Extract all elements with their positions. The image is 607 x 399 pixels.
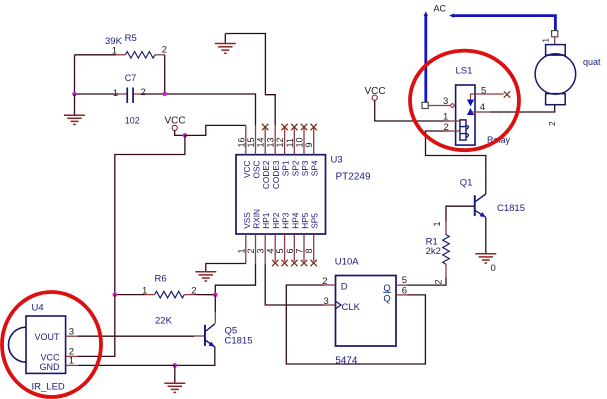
resistor R5: [105, 33, 167, 58]
svg-text:R5: R5: [125, 33, 137, 44]
svg-text:VCC: VCC: [242, 161, 252, 179]
svg-text:15: 15: [246, 137, 256, 147]
resistor R6: [115, 274, 197, 327]
svg-text:6: 6: [402, 286, 407, 297]
ellipse highlight around U4: [2, 292, 101, 397]
power VCC (left): [165, 116, 186, 136]
pin 6 Qbar: [396, 286, 408, 297]
wire R5 pin1 horizontal: [75, 54, 116, 56]
pin 4 HP2: [265, 212, 281, 266]
pin 2 RXIN: [246, 209, 262, 264]
svg-text:1: 1: [112, 45, 117, 56]
pin 2 VCC: [66, 347, 78, 358]
svg-text:12: 12: [275, 137, 285, 147]
svg-text:SP3: SP3: [300, 160, 310, 176]
svg-text:0: 0: [491, 263, 496, 274]
transistor Q1: [460, 177, 525, 217]
capacitor C7: [113, 73, 146, 125]
arrow AC horizontal tip: [449, 13, 454, 17]
IC U4 IR_LED receiver: [9, 302, 66, 392]
svg-text:HP1: HP1: [261, 212, 271, 229]
wire R6 pin2 to node: [196, 294, 215, 296]
relay pin 3: [443, 96, 455, 108]
pin 1 VSS: [236, 212, 252, 264]
pin 6 HP4: [285, 212, 301, 266]
relay LS1 body: [456, 66, 511, 146]
svg-text:C1815: C1815: [225, 335, 253, 346]
svg-text:1: 1: [236, 248, 246, 253]
svg-text:SP1: SP1: [281, 160, 291, 176]
svg-text:8: 8: [304, 248, 314, 253]
svg-text:Q1: Q1: [460, 177, 473, 188]
terminal square motor pin1: [552, 31, 558, 37]
relay pin 1 stub: [444, 120, 456, 122]
svg-text:IR_LED: IR_LED: [32, 381, 65, 392]
svg-text:CLK: CLK: [342, 302, 361, 313]
wire VCC to U3 pin16: [185, 125, 246, 135]
svg-text:2: 2: [434, 279, 444, 284]
wire R5 pin2 down to C7 node: [164, 55, 166, 94]
pin 10 SP3: [295, 124, 311, 176]
wire AC thick blue horizontal to motor: [454, 16, 556, 31]
svg-text:HP3: HP3: [281, 212, 291, 229]
svg-text:CODE2: CODE2: [261, 160, 271, 189]
pin 3 HP1: [256, 212, 272, 264]
relay coil: [456, 120, 469, 140]
svg-text:5: 5: [275, 248, 285, 253]
svg-text:11: 11: [285, 138, 295, 147]
relay pin 4 wire to motor: [475, 102, 555, 113]
svg-text:1: 1: [542, 38, 551, 43]
svg-text:PT2249: PT2249: [336, 172, 371, 183]
svg-text:SP5: SP5: [310, 213, 320, 229]
svg-text:HP5: HP5: [300, 212, 310, 229]
wire Qbar feedback loop to D: [286, 285, 425, 364]
svg-text:Q: Q: [383, 294, 390, 305]
svg-text:VOUT: VOUT: [34, 332, 60, 342]
svg-text:R6: R6: [155, 274, 167, 285]
svg-text:U10A: U10A: [335, 257, 359, 268]
pin 7 HP5: [295, 212, 311, 266]
pin 15 OSC: [246, 125, 262, 178]
resistor R1: [426, 221, 450, 277]
pin 12 SP1: [275, 124, 291, 176]
wire R5 left vertical to C7 node: [74, 55, 76, 94]
ground top (CODE3 net): [215, 34, 236, 54]
svg-text:3: 3: [324, 296, 329, 307]
pin 5 Q: [396, 275, 408, 286]
node VCC junction: [183, 133, 188, 138]
pin 16 VCC: [236, 125, 252, 178]
svg-text:quat: quat: [583, 57, 601, 67]
power VCC (relay): [365, 86, 450, 121]
wire C7 row left: [75, 93, 119, 95]
svg-text:3: 3: [256, 248, 266, 253]
wire AC net dark segment square to diamond: [428, 105, 450, 107]
svg-text:1: 1: [142, 285, 147, 296]
svg-text:4: 4: [265, 248, 275, 253]
svg-text:2: 2: [547, 121, 557, 126]
svg-text:SP4: SP4: [310, 160, 320, 176]
svg-text:7: 7: [295, 248, 305, 253]
svg-text:C1815: C1815: [497, 203, 525, 214]
motor quat: [535, 37, 601, 105]
svg-text:HP2: HP2: [271, 212, 281, 229]
svg-text:10: 10: [295, 137, 305, 147]
pin 2 D: [322, 276, 335, 287]
wire Q1 collector up to relay: [426, 131, 486, 194]
wire VCC rail down to U4 pin2: [78, 295, 115, 357]
svg-text:2: 2: [246, 248, 256, 253]
pin 13 CODE3: [265, 125, 281, 189]
wire HP1 to CLK: [265, 264, 323, 305]
svg-text:3: 3: [69, 327, 74, 338]
wire junction to U4 GND: [78, 364, 175, 366]
svg-text:2: 2: [191, 285, 196, 296]
svg-text:22K: 22K: [155, 315, 173, 326]
pin 11 SP2: [285, 124, 301, 176]
pin 9 SP4: [304, 124, 320, 176]
pin 1 GND: [66, 356, 78, 367]
op-amp U3 (PT2249 IC body): [236, 155, 371, 235]
svg-text:5: 5: [402, 275, 407, 286]
svg-text:5474: 5474: [335, 355, 358, 366]
ellipse highlight around relay: [410, 51, 519, 151]
wire VSS pin1 to ground: [206, 264, 246, 272]
wire AC thick blue vertical: [424, 16, 427, 102]
svg-text:RXIN: RXIN: [252, 209, 262, 229]
pin 5 HP3: [275, 212, 291, 266]
svg-text:D: D: [341, 281, 348, 292]
pin 3 CLK: [324, 296, 336, 307]
svg-text:GND: GND: [40, 362, 61, 372]
arrow AC vertical tip: [424, 11, 428, 16]
svg-text:VSS: VSS: [242, 212, 252, 229]
wire Q1 emitter to ground: [485, 217, 487, 253]
IC U10A flip-flop body: [335, 257, 396, 367]
node C7 right junction: [162, 92, 167, 97]
svg-text:1: 1: [69, 356, 74, 367]
transistor Q5: [194, 324, 253, 347]
svg-text:102: 102: [125, 115, 140, 125]
pin 3 VOUT: [66, 327, 78, 338]
svg-text:2: 2: [141, 87, 146, 98]
svg-text:OSC: OSC: [252, 160, 262, 178]
wire RXIN to R6/Q5 node: [215, 264, 255, 295]
svg-text:9: 9: [304, 142, 314, 147]
wire VOUT to Q5 base: [78, 335, 194, 337]
svg-text:2: 2: [162, 44, 167, 55]
wire VCC down-left to R6/U4: [115, 135, 185, 294]
ground VSS: [195, 272, 216, 281]
svg-text:U3: U3: [331, 155, 343, 166]
terminal square AC left: [422, 102, 428, 108]
wire ground to U3 pin13: [225, 34, 275, 126]
node R6 right junction: [213, 292, 218, 297]
svg-text:CODE3: CODE3: [271, 160, 281, 189]
svg-text:C7: C7: [125, 73, 137, 83]
node R6 left junction: [113, 292, 118, 297]
wire Q5 emitter to ground row: [175, 347, 215, 366]
svg-text:1: 1: [432, 221, 442, 226]
svg-text:2k2: 2k2: [426, 246, 441, 257]
svg-text:16: 16: [236, 137, 246, 147]
svg-text:6: 6: [285, 248, 295, 253]
relay pin 5 wire and no-connect: [475, 85, 510, 97]
wire Q pin5 to R1: [408, 278, 447, 286]
svg-text:SP2: SP2: [290, 160, 300, 176]
svg-text:LS1: LS1: [456, 66, 473, 77]
svg-text:13: 13: [265, 137, 275, 147]
relay contact arrows: [467, 94, 475, 115]
svg-text:AC: AC: [434, 4, 447, 14]
ground Q5: [164, 365, 185, 392]
svg-text:VCC: VCC: [40, 352, 60, 362]
svg-text:HP4: HP4: [290, 212, 300, 229]
node emitter/GND junction: [173, 363, 178, 368]
wire node down to Q5 collector: [214, 295, 216, 312]
node C7 left junction: [72, 92, 77, 97]
pin 14 CODE2: [256, 124, 272, 189]
ground top-left: [64, 94, 85, 124]
svg-text:14: 14: [256, 137, 266, 147]
svg-text:U4: U4: [32, 302, 44, 313]
wire R1 top to Q1 base: [446, 206, 474, 221]
relay pin 2 stub: [444, 130, 456, 132]
svg-text:1: 1: [113, 88, 118, 99]
wire C7 row right to OSC: [143, 94, 256, 125]
ground 0 under Q1: [475, 254, 496, 274]
pin 8 SP5: [304, 213, 320, 266]
